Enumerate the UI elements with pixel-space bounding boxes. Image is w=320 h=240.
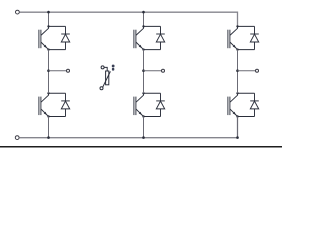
wire: collector link to D6 (238, 92, 255, 94)
diode D4 (antiparallel) (156, 93, 165, 116)
breaker SW1 body (fuse rectangle) (106, 71, 109, 85)
junction: DC- bus / leg A (47, 136, 50, 139)
node: emitter node Q2 (47, 115, 49, 117)
wire: emitter link from D3 (144, 49, 161, 51)
node: emitter node Q5 (236, 48, 238, 50)
wire: leg B midpoint link (143, 50, 145, 94)
transistor Q3 (IGBT) (134, 26, 144, 49)
wire: DC- bus (bottom rail) (19, 117, 237, 138)
terminal DC+ (positive input port) (16, 10, 20, 14)
node: collector node Q2 (47, 92, 49, 94)
wire: emitter link from D4 (144, 116, 161, 118)
node: emitter node Q4 (142, 115, 144, 117)
wire: DC+ bus (top rail) (20, 12, 238, 26)
transistor Q2 (IGBT) (39, 93, 49, 116)
breaker SW1 top terminal (101, 66, 104, 69)
transistor Q4 (IGBT) (134, 93, 144, 116)
wire: breaker top lead (104, 67, 107, 71)
diode D6 (antiparallel) (250, 93, 259, 116)
transistor Q6 (IGBT) (228, 93, 238, 116)
wire: phase A output (49, 70, 67, 72)
wire: leg A top drop from DC+ bus (48, 12, 50, 26)
node: collector node Q3 (142, 25, 144, 27)
terminal phase A output port (67, 69, 70, 72)
wire: leg B bottom drop to DC- bus (143, 117, 145, 138)
junction: phase C output tap (236, 69, 239, 72)
wire: leg C bottom drop to DC- bus (237, 117, 239, 138)
junction: DC- bus / leg B (142, 136, 145, 139)
wire: leg A midpoint link (48, 50, 50, 94)
junction: DC+ bus / leg B (142, 11, 145, 14)
junction: DC- bus / leg C (236, 136, 239, 139)
node: emitter node Q3 (142, 48, 144, 50)
transistor Q5 (IGBT) (228, 26, 238, 49)
node: collector node Q5 (236, 25, 238, 27)
wire: leg A bottom drop to DC- bus (48, 117, 50, 138)
wire: emitter link from D2 (49, 116, 66, 118)
terminal phase C output port (256, 69, 259, 72)
wire: emitter link from D5 (238, 49, 255, 51)
terminal phase B output port (162, 69, 165, 72)
diode D2 (antiparallel) (61, 93, 70, 116)
wire: leg C midpoint link (237, 50, 239, 94)
breaker SW1 bottom terminal (100, 87, 103, 90)
wire: collector link to D4 (144, 92, 161, 94)
wire: collector link to D3 (144, 25, 161, 27)
label: breaker pin 3 (112, 65, 115, 68)
transistor Q1 (IGBT) (39, 26, 49, 49)
wire: collector link to D2 (49, 92, 66, 94)
label: breaker pin 1 (112, 68, 114, 71)
terminal DC- (negative input port) (15, 136, 19, 140)
wire: phase B output (144, 70, 162, 72)
wire: collector link to D5 (238, 25, 255, 27)
diode D3 (antiparallel) (156, 26, 165, 49)
frame rule at bottom (0, 146, 282, 148)
wire: emitter link from D1 (49, 49, 66, 51)
node: collector node Q6 (236, 92, 238, 94)
node: collector node Q4 (142, 92, 144, 94)
wire: collector link to D1 (49, 25, 66, 27)
wire: phase C output (238, 70, 256, 72)
node: emitter node Q1 (47, 48, 49, 50)
breaker SW1 blade (diagonal) (103, 71, 111, 87)
diode D1 (antiparallel) (61, 26, 70, 49)
wire: leg B top drop from DC+ bus (143, 12, 145, 26)
wire: emitter link from D6 (238, 116, 255, 118)
node: collector node Q1 (47, 25, 49, 27)
junction: phase A output tap (47, 69, 50, 72)
node: emitter node Q6 (236, 115, 238, 117)
junction: DC+ bus / leg A (47, 11, 50, 14)
junction: phase B output tap (142, 69, 145, 72)
diode D5 (antiparallel) (250, 26, 259, 49)
